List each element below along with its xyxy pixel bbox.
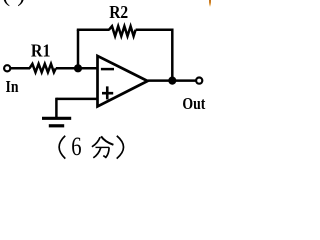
svg-text:In: In xyxy=(6,77,19,96)
svg-text:6: 6 xyxy=(71,132,81,161)
orange marker fragment (top-right corner) xyxy=(209,0,211,7)
answer blank right parenthesis (top-left, cropped by page top) xyxy=(17,0,25,8)
wire: input terminal to R1 xyxy=(10,67,30,70)
resistor R2 (zigzag) xyxy=(109,26,136,36)
ground stem (vertical) xyxy=(55,98,58,119)
svg-text:R1: R1 xyxy=(31,41,51,61)
op-amp U1 (triangle) xyxy=(98,56,148,107)
caption close parenthesis xyxy=(117,136,124,159)
svg-text:Out: Out xyxy=(182,94,205,113)
svg-text:R2: R2 xyxy=(109,2,128,22)
junction dot: summing node xyxy=(74,64,82,72)
caption open parenthesis xyxy=(59,136,65,159)
wire: top rail right segment from R2 xyxy=(136,28,173,31)
wire: R1 to summing node and op-amp inverting input xyxy=(56,67,98,70)
op-amp non-inverting input sign (plus) xyxy=(102,86,113,99)
input terminal (open circle), node In xyxy=(4,65,10,71)
junction dot: output node (feedback tap) xyxy=(168,77,176,85)
wire: non-inverting input to ground stem xyxy=(56,98,97,101)
ground long bar xyxy=(42,117,71,120)
wire: op-amp output to output terminal xyxy=(148,79,197,82)
resistor R1 (zigzag) xyxy=(30,64,56,72)
output terminal (open circle), node Out xyxy=(196,78,202,84)
caption character FEN (hand-drawn glyph) xyxy=(92,136,114,158)
op-amp inverting input sign (minus) xyxy=(101,68,114,71)
wire: feedback right vertical down to output node xyxy=(171,29,174,81)
ground short bar xyxy=(49,124,64,127)
wire: top rail left segment to R2 xyxy=(77,28,110,31)
wire: feedback left vertical (node up to top rail) xyxy=(77,30,80,69)
answer blank left parenthesis (top-left, cropped by page top) xyxy=(2,0,10,8)
